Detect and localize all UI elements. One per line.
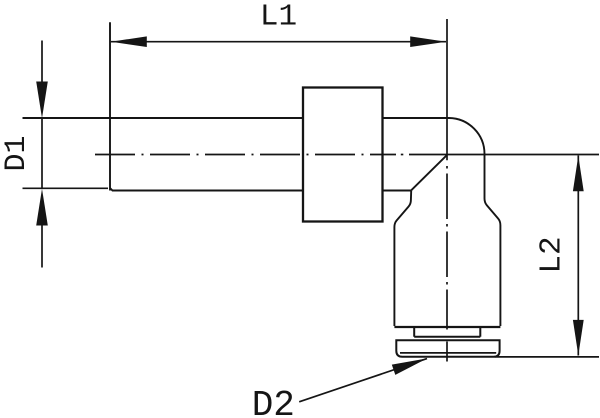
svg-text:L2: L2 — [535, 236, 570, 273]
svg-text:D2: D2 — [252, 385, 295, 418]
svg-text:D1: D1 — [0, 135, 34, 171]
svg-text:L1: L1 — [260, 0, 297, 35]
